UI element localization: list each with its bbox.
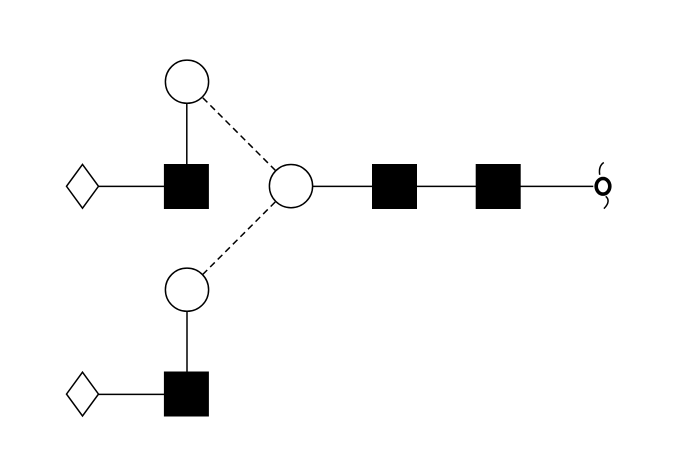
reducing end marker: lower squiggle (604, 196, 608, 208)
wire: center circle to right square 1 (312, 185, 373, 187)
monosaccharide square GlcNAc (chain 2, reducing side) (476, 164, 521, 209)
wire: right square 2 to reducing end (519, 185, 593, 187)
reducing end marker: upper squiggle (599, 163, 603, 175)
wire: top diamond to top square (97, 185, 165, 187)
wire (dashed): top circle to center circle (203, 98, 275, 171)
wire: top circle to top square (186, 103, 188, 165)
monosaccharide square GlcNAc (chain 1) (372, 164, 417, 209)
monosaccharide diamond (lower branch) (67, 372, 99, 416)
monosaccharide diamond (top branch) (67, 164, 99, 208)
reducing end marker: bold O ring (596, 179, 610, 195)
wire: lower circle to lower square (186, 311, 188, 373)
monosaccharide circle (top branch terminal Gal) (165, 60, 208, 103)
wire: lower diamond to lower square (97, 393, 165, 395)
monosaccharide square GlcNAc (top branch) (164, 164, 209, 209)
monosaccharide square GlcNAc (lower branch) (164, 372, 209, 417)
wire (dashed): center circle to lower circle (203, 202, 275, 275)
wire: right square 1 to right square 2 (416, 185, 477, 187)
monosaccharide circle (center branching Man) (269, 165, 312, 208)
monosaccharide circle (lower branch Gal) (165, 268, 208, 311)
